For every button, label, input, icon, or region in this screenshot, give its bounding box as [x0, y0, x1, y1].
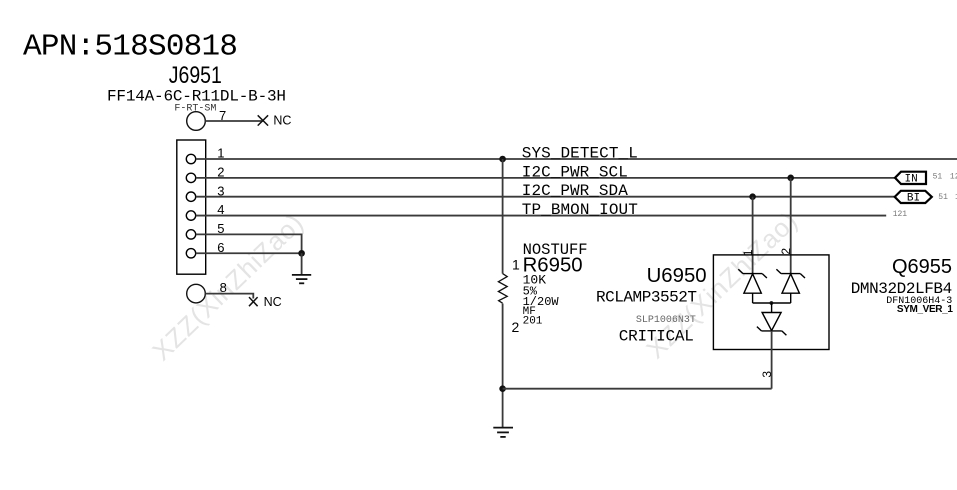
- wire link to bottom diode: [771, 303, 773, 313]
- svg-text:IN: IN: [905, 174, 918, 186]
- connector pin 2 circle: [186, 173, 195, 182]
- wire pin 8 to NC: [205, 294, 253, 299]
- svg-text:SLP1006N3T: SLP1006N3T: [636, 315, 696, 326]
- svg-text:SYS_DETECT_L: SYS_DETECT_L: [522, 145, 638, 163]
- wire pin 5 to ground node: [196, 234, 302, 253]
- wire down to ground: [301, 253, 303, 274]
- connector J6951 body: [177, 140, 206, 274]
- wire SYS node down to resistor: [502, 159, 504, 274]
- U6950 body: [713, 255, 829, 350]
- wire resistor bottom to ground: [502, 304, 504, 428]
- svg-text:SYM_VER_1: SYM_VER_1: [897, 304, 953, 315]
- connector pin 5 circle: [186, 230, 195, 239]
- svg-text:1: 1: [512, 257, 520, 273]
- junction I2C_PWR_SDA / U6950 pin 1: [749, 193, 756, 200]
- wire SCL down to U6950 pin 2: [790, 178, 792, 274]
- junction I2C_PWR_SCL / U6950 pin 2: [787, 175, 794, 182]
- junction bottom node: [499, 385, 506, 392]
- svg-text:I2C_PWR_SDA: I2C_PWR_SDA: [522, 182, 628, 200]
- TVS diode right (pin 2): [776, 269, 805, 303]
- svg-text:51: 51: [938, 193, 948, 202]
- connector pin 4 circle: [186, 211, 195, 220]
- svg-text:2: 2: [779, 248, 793, 255]
- wire bottom node to U6950 pin 3: [503, 388, 772, 390]
- svg-text:7: 7: [219, 108, 226, 123]
- svg-text:NC: NC: [273, 113, 291, 127]
- connector pin 3 circle: [186, 192, 195, 201]
- connector pin 1 circle: [186, 154, 195, 163]
- svg-text:I2C_PWR_SCL: I2C_PWR_SCL: [522, 163, 628, 181]
- connector J6951 pin 7 circle: [187, 112, 206, 131]
- svg-text:NC: NC: [264, 295, 282, 309]
- junction pins 5/6: [298, 250, 305, 257]
- svg-text:U6950: U6950: [647, 265, 707, 287]
- off-page flag IN (I2C_PWR_SCL): [895, 172, 926, 184]
- wire pin 6 to ground node: [196, 252, 302, 254]
- internal link wire: [753, 302, 791, 304]
- svg-text:RCLAMP3552T: RCLAMP3552T: [596, 289, 697, 307]
- svg-text:123: 123: [950, 172, 957, 181]
- svg-text:2: 2: [512, 319, 520, 335]
- ground symbol at connector: [292, 275, 311, 283]
- off-page flag BI (I2C_PWR_SDA): [895, 191, 932, 203]
- connector J6951 pin 8 circle: [187, 284, 206, 303]
- svg-text:CRITICAL: CRITICAL: [619, 328, 694, 346]
- internal junction dot: [770, 301, 774, 305]
- svg-text:201: 201: [523, 316, 543, 328]
- svg-text:TP_BMON_IOUT: TP_BMON_IOUT: [522, 201, 638, 219]
- no-connect X on pin 7: [258, 115, 268, 125]
- wire SYS_DETECT_L: [196, 158, 957, 160]
- svg-text:3: 3: [760, 371, 774, 378]
- ground symbol at resistor: [493, 428, 513, 437]
- wire I2C_PWR_SCL: [196, 177, 896, 179]
- no-connect X on pin 8: [249, 297, 258, 306]
- wire I2C_PWR_SDA: [196, 196, 895, 198]
- svg-text:APN:518S0818: APN:518S0818: [23, 30, 238, 65]
- svg-text:8: 8: [220, 280, 227, 295]
- wire bottom diode to box edge and pin 3: [771, 331, 773, 389]
- junction SYS_DETECT_L / R6950: [499, 156, 506, 163]
- resistor R6950 zigzag: [498, 274, 507, 304]
- svg-text:BI: BI: [907, 193, 920, 205]
- wire TP_BMON_IOUT: [196, 215, 886, 217]
- svg-text:J6951: J6951: [169, 62, 222, 89]
- svg-text:121: 121: [893, 210, 908, 219]
- svg-text:51: 51: [933, 172, 943, 181]
- connector pin 6 circle: [186, 249, 195, 258]
- wire SDA down to U6950 pin 1: [752, 197, 754, 274]
- TVS diode left (pin 1): [738, 269, 767, 303]
- svg-text:F-RT-SM: F-RT-SM: [174, 103, 216, 114]
- wire pin 7 to NC: [205, 120, 263, 122]
- TVS diode bottom (pin 3): [757, 313, 787, 336]
- svg-text:Q6955: Q6955: [892, 256, 952, 278]
